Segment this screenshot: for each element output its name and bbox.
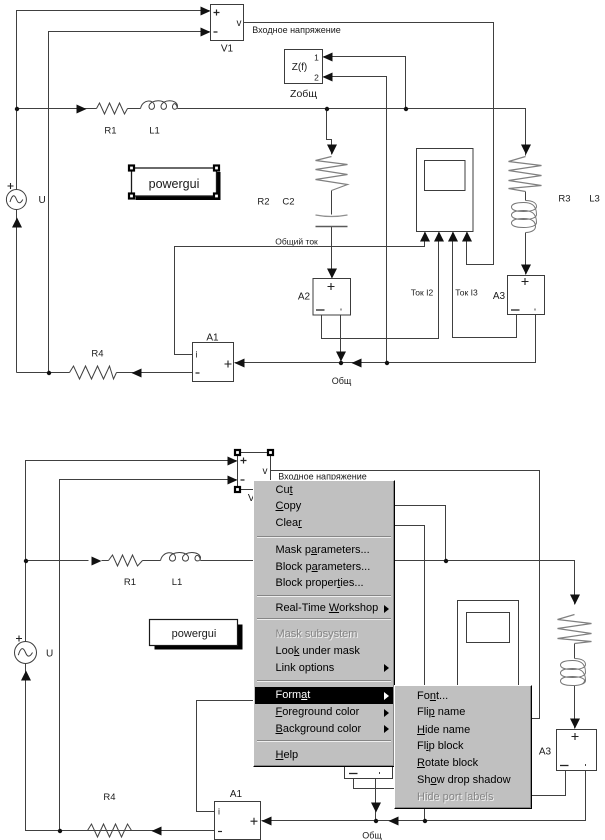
context menu: [253, 480, 396, 767]
wire A1 i to scope input1 (bottom): [197, 701, 471, 812]
wire L3 to A3 plus (bottom): [574, 686, 576, 729]
block A3 (bottom): [557, 730, 597, 771]
svg-text:R1: R1: [104, 126, 116, 137]
svg-text:v: v: [263, 466, 268, 477]
AC source U: [6, 183, 26, 210]
block Zobsh Z(f): [285, 50, 323, 84]
junction node Obsh-A2: [339, 361, 343, 365]
wire A3 minus to Obsh bus (bottom): [262, 771, 586, 821]
arrowhead into A1 plus: [235, 359, 245, 368]
resistor R1 (bottom): [109, 555, 143, 566]
AC source U (bottom): [15, 636, 37, 664]
svg-text:i: i: [196, 350, 198, 360]
Format submenu: [394, 685, 532, 809]
svg-text:v: v: [237, 18, 242, 29]
arrowhead into scope input 2: [434, 232, 444, 242]
wire A2 minus down to common bus: [340, 315, 342, 361]
arrowhead on bus (bottom): [92, 557, 102, 566]
svg-text:Общ: Общ: [362, 831, 382, 840]
arrowhead into A2 plus: [327, 269, 337, 279]
resistor R4: [70, 366, 117, 379]
svg-text:Ток I3: Ток I3: [455, 288, 478, 298]
resistor R1: [97, 103, 128, 114]
svg-text:L1: L1: [172, 577, 183, 588]
inductor L1: [141, 101, 178, 110]
capacitor C2: [316, 215, 348, 217]
arrowhead into A3 plus: [521, 265, 531, 275]
svg-text:A3: A3: [539, 747, 552, 758]
wire A3 out to scope input 3: [453, 233, 517, 338]
svg-text:A1: A1: [206, 333, 219, 344]
block Scope: [417, 149, 474, 232]
junction node R4-V1minus: [47, 371, 51, 375]
svg-text:powergui: powergui: [149, 177, 200, 191]
junction node bus-R2: [325, 107, 329, 111]
arrowhead into A3 plus (bottom): [570, 719, 580, 729]
wire U+ to V1 plus input (top diagram): [17, 11, 210, 190]
wire common bus Obsh to A1 plus: [235, 315, 536, 363]
block A3 current measurement: [508, 276, 545, 315]
arrowhead on Obsh bus mid (bottom): [389, 817, 399, 826]
resistor R3 (bottom): [558, 615, 592, 644]
svg-text:powergui: powergui: [172, 628, 217, 640]
wire main bus (bottom): [26, 561, 575, 605]
svg-text:V1: V1: [221, 44, 234, 55]
svg-text:2: 2: [314, 73, 319, 83]
svg-text:Ток I2: Ток I2: [411, 288, 434, 298]
wire Zobsh port 1: [324, 57, 406, 109]
svg-text:Входное напряжение: Входное напряжение: [252, 25, 341, 35]
resistor R4 (bottom): [88, 824, 132, 837]
wire C2 to A2 plus: [331, 227, 333, 278]
resistor R2: [316, 157, 348, 191]
block powergui (selected, drop shadow): [129, 166, 221, 201]
inductor L1 (bottom): [161, 552, 201, 561]
svg-text:C2: C2: [282, 197, 294, 208]
inductor L3: [512, 201, 537, 233]
wire bus to R2: [327, 109, 332, 155]
wire A2 out to scope input 2: [322, 233, 439, 339]
svg-text:1: 1: [314, 53, 319, 63]
arrowhead A2 minus to bus: [336, 352, 346, 362]
wire main bus: [17, 109, 526, 156]
svg-text:Zобщ: Zобщ: [290, 88, 317, 100]
svg-text:R2: R2: [257, 197, 269, 208]
wire Zobsh port2 (bottom, behind menu): [353, 526, 425, 821]
svg-text:L1: L1: [149, 126, 160, 137]
svg-text:L3: L3: [589, 194, 600, 205]
resistor R3: [509, 157, 542, 192]
wire U bottom return (bottom): [26, 664, 215, 831]
arrowhead into scope input 3: [448, 232, 458, 242]
svg-text:U: U: [46, 649, 53, 660]
arrowhead into U bottom: [12, 218, 22, 228]
wire V1 minus tap from node at R4 line: [49, 32, 210, 373]
block Scope (bottom): [458, 601, 519, 719]
block V1 voltage measurement: [211, 5, 244, 41]
wire A2 sliver out (bottom): [354, 705, 479, 789]
junction node bus-Zf1 (bottom): [444, 559, 448, 563]
arrowhead into Zobsh port 1: [323, 53, 333, 62]
junction node bus-Zf1: [404, 107, 408, 111]
block A1 current measurement: [193, 343, 234, 382]
arrowhead on R4 wire (bottom): [152, 827, 162, 836]
wire V1 output toward scope input 4 (bottom): [271, 471, 540, 719]
svg-text:Z(f): Z(f): [292, 62, 308, 73]
wire A1 i to scope input 1: [175, 233, 425, 355]
wire R2 to C2: [331, 191, 333, 215]
block A2 sliver (bottom, mostly hidden behind menu): [345, 738, 393, 779]
arrowhead on Obsh bus mid: [352, 359, 362, 368]
junction node Obsh-Zf2 (bottom): [423, 819, 427, 823]
arrowhead into V1 plus (bottom): [228, 457, 238, 466]
arrowhead A2 minus to bus (bottom): [371, 803, 381, 813]
junction node bus-left (bottom): [24, 559, 28, 563]
arrowhead into scope input 1: [420, 232, 430, 242]
junction node Obsh-A2 (bottom): [374, 819, 378, 823]
wire A1 minus to R4 to U: [17, 372, 193, 374]
block A2 current measurement: [313, 279, 351, 316]
junction node Obsh-Zf2: [385, 361, 389, 365]
arrowhead into V1 minus (bottom): [228, 476, 238, 485]
svg-text:R1: R1: [124, 577, 136, 588]
svg-text:U: U: [39, 195, 46, 206]
wire L3 to A3 plus: [525, 233, 527, 275]
block powergui (bottom, drop shadow): [150, 620, 243, 650]
wire Zobsh port 2: [324, 77, 387, 363]
wire U+ to V1 plus input (bottom diagram): [26, 461, 237, 642]
block V1 selected (bottom): [235, 450, 273, 492]
svg-text:Общий ток: Общий ток: [275, 237, 318, 247]
arrowhead into V1 plus: [201, 7, 211, 16]
arrowhead into A1 plus (bottom): [262, 817, 272, 826]
arrowhead above R2: [327, 145, 337, 155]
arrowhead into Zobsh port 2: [323, 73, 333, 82]
svg-text:i: i: [218, 807, 220, 817]
block A1 (bottom): [215, 802, 261, 840]
svg-text:A3: A3: [493, 291, 506, 302]
svg-text:R3: R3: [558, 194, 570, 205]
svg-text:A2: A2: [298, 292, 311, 303]
arrowhead on main bus: [77, 105, 87, 114]
wire R3 to L3 (bottom): [574, 644, 576, 659]
arrowhead into U bottom (bottom): [21, 671, 31, 681]
arrowhead above R3 (bottom): [570, 595, 580, 605]
wire Zobsh port1 (bottom, behind menu): [353, 506, 446, 561]
svg-text:R4: R4: [103, 792, 115, 803]
inductor L3 (bottom): [561, 659, 586, 686]
arrowhead into V1 minus: [201, 28, 211, 37]
wire A3 out3 (bottom): [471, 705, 566, 796]
svg-text:R4: R4: [91, 349, 103, 360]
wire A2 minus down (bottom): [375, 779, 377, 820]
svg-text:A1: A1: [230, 789, 243, 800]
arrowhead above R3: [521, 145, 531, 155]
svg-text:Общ: Общ: [332, 376, 352, 386]
arrowhead into scope input 4: [462, 232, 472, 242]
wire R3 to L3: [525, 192, 527, 201]
arrowhead on R4 wire: [132, 369, 142, 378]
junction node bus-left: [15, 107, 19, 111]
wire V1 output to scope input 4: [244, 23, 494, 265]
wire U bottom return: [16, 210, 18, 373]
junction node R4-V1minus (bottom): [58, 829, 62, 833]
wire V1 minus tap (bottom): [60, 480, 237, 831]
